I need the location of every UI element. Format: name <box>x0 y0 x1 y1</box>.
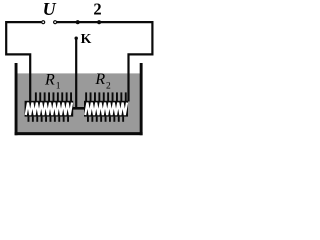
svg-text:U: U <box>43 0 57 19</box>
svg-text:R: R <box>44 71 55 88</box>
svg-text:R: R <box>94 71 105 88</box>
svg-text:2: 2 <box>106 82 111 92</box>
svg-text:2: 2 <box>93 0 101 18</box>
svg-text:K: K <box>81 31 92 46</box>
svg-text:1: 1 <box>56 82 61 92</box>
